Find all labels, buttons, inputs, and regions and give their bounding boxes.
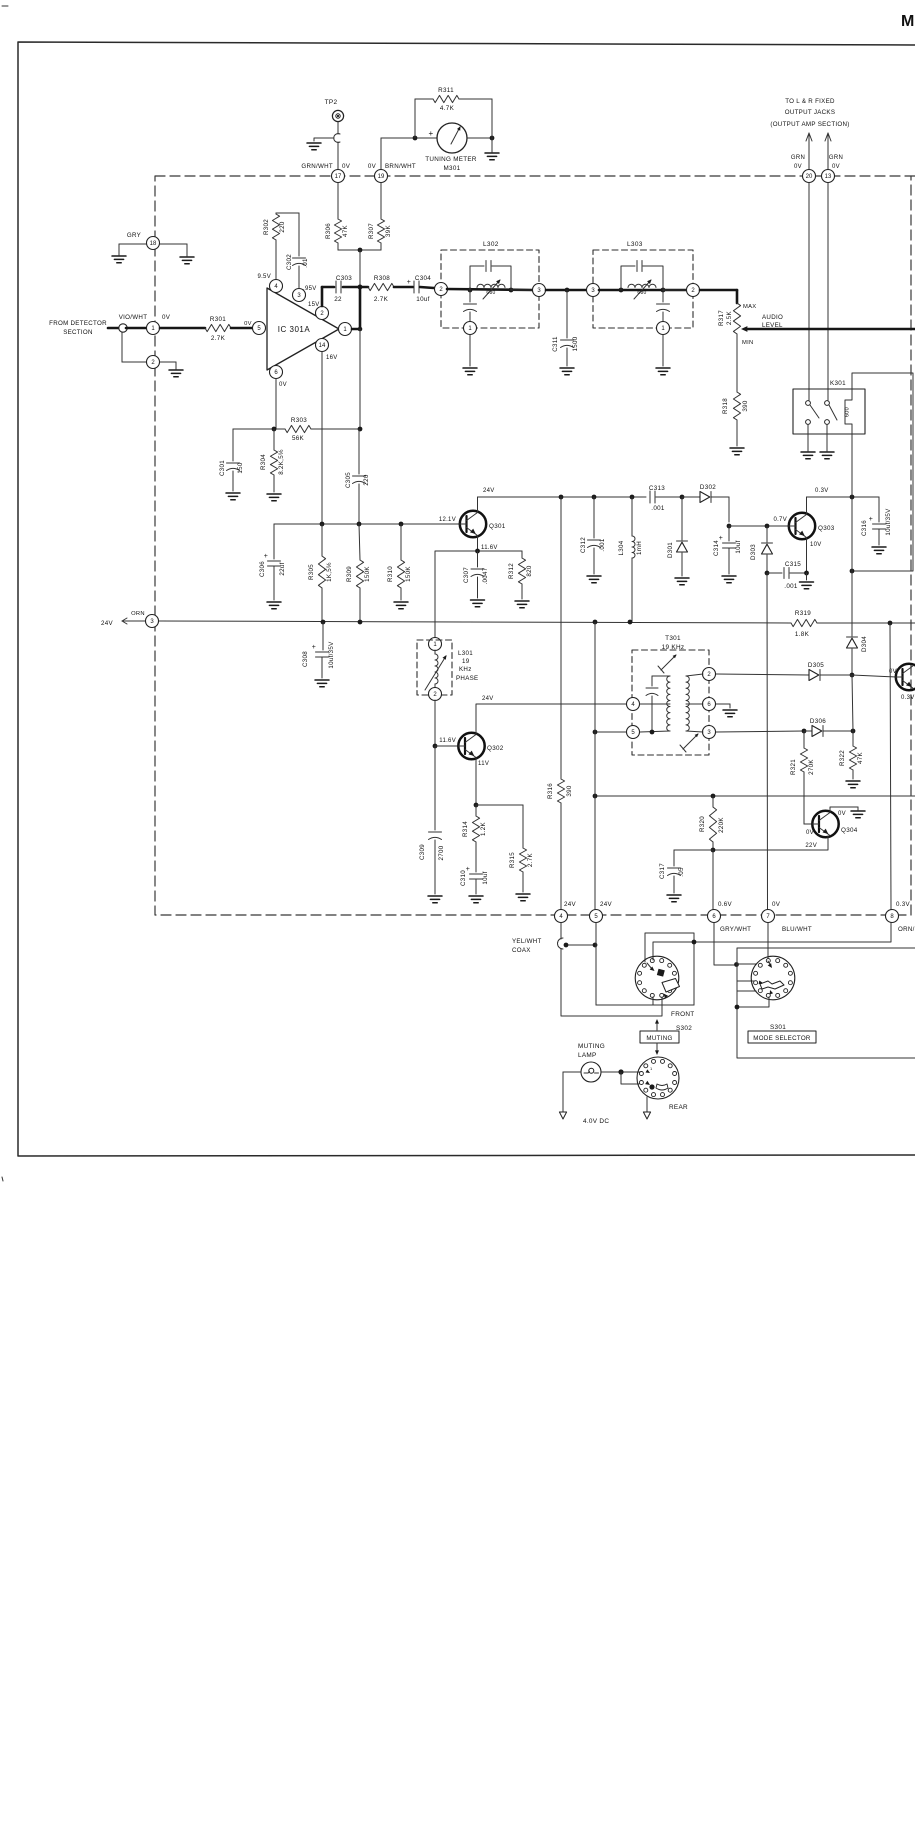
svg-text:220K: 220K [718,817,725,833]
wire 20 to relay [808,183,810,400]
node 17 [301,163,350,183]
node Q302 base [433,744,438,749]
svg-text:680: 680 [486,290,495,296]
wire Q302 base [435,738,458,746]
node L303 left [619,288,624,293]
muting link lower arrow [655,1043,659,1055]
TP2 coax loop [334,134,340,143]
wire node4 down [560,923,562,939]
wire S301 lower feed [737,990,756,992]
svg-text:19 KHz: 19 KHz [662,644,685,651]
resistor R305 [308,524,333,622]
svg-text:MUTING: MUTING [646,1035,672,1042]
ground R318 [730,448,744,455]
svg-text:ORN: ORN [131,611,145,617]
svg-text:820: 820 [526,565,533,576]
ground C312 [587,576,601,583]
svg-text:M: M [901,13,914,30]
capacitor C313 [649,485,665,512]
switch S302 rear wafer [637,1057,679,1099]
node pin1 corner [358,327,363,332]
svg-text:0V: 0V [162,314,171,321]
resistor R320 [699,796,725,850]
wire node to D302 [682,496,700,498]
node C312 top [592,495,597,500]
svg-text:680: 680 [637,290,646,296]
svg-text:S301: S301 [770,1024,786,1031]
mode selector box [748,1031,816,1043]
T301 trimmer top [658,654,677,673]
svg-text:GRN: GRN [829,155,843,161]
svg-text:+: + [312,644,316,651]
svg-text:0.7V: 0.7V [773,517,787,523]
pin T301-4 [627,698,640,711]
T301 resonant capacitor [646,676,658,732]
svg-text:0V: 0V [244,321,252,327]
diode D304 [847,636,869,675]
svg-text:SECTION: SECTION [63,329,93,336]
svg-text:OUTPUT JACKS: OUTPUT JACKS [785,109,836,116]
diode D301 [667,497,688,576]
transformer box T301 [632,635,709,755]
svg-text:D303: D303 [750,544,757,560]
svg-text:R320: R320 [699,816,706,832]
node C308 rail [321,620,326,625]
wire C317 tap [674,849,713,851]
svg-text:2.7K: 2.7K [211,335,226,342]
svg-text:0V: 0V [368,163,377,170]
wire node8 column [890,623,891,909]
inductor L302 coil [477,279,505,299]
node coax [564,943,569,948]
resistor R316 [547,497,573,909]
svg-text:D301: D301 [667,542,674,558]
svg-text:19: 19 [462,658,470,665]
wire lamp right [601,1071,640,1073]
svg-text:.01: .01 [302,258,309,268]
svg-text:C315: C315 [785,561,801,568]
svg-text:R303: R303 [291,417,307,424]
node 4 [555,901,577,923]
pin 14 [316,339,338,362]
T301 trimmer bottom [680,733,699,752]
label 12.1V [439,517,456,523]
pin L302-3 [533,284,546,297]
resistor R315 [509,805,534,892]
transistor Q304 [812,811,858,837]
capacitor C303 [334,275,352,303]
wire emitter row [436,550,522,552]
wire Q302 emitter [476,758,489,805]
svg-text:R318: R318 [722,398,729,414]
node 13 [822,170,835,183]
24V ORN rail [159,621,791,623]
svg-text:0V: 0V [772,901,781,908]
node R320 bottom [711,848,716,853]
node 5 [590,901,613,923]
svg-text:D304: D304 [861,636,868,652]
svg-text:9.5V: 9.5V [257,274,271,280]
label ORN [898,926,915,933]
ground Q303 emitter [800,573,814,589]
svg-text:.001: .001 [784,583,798,590]
svg-text:R312: R312 [508,563,515,579]
node 0.3V drop [850,569,855,574]
wire coax to node5 column [566,944,595,946]
svg-text:2.7K: 2.7K [527,852,534,867]
wire R306 R307 join [338,249,381,251]
svg-text:COAX: COAX [512,947,531,954]
node C314 top [727,524,732,529]
svg-text:R316: R316 [547,783,554,799]
svg-text:+: + [869,516,873,523]
pin L301-1 [429,638,442,651]
svg-text:10uf: 10uf [482,871,489,884]
wire meter left up [414,99,416,138]
svg-text:R308: R308 [374,275,390,282]
L303 bottom capacitor [657,290,670,321]
wire Q301 collector [478,488,495,512]
svg-text:C310: C310 [460,870,467,886]
node D303 bottom [765,571,770,576]
svg-text:150K: 150K [364,566,371,582]
label REAR [669,1104,688,1111]
potentiometer R317 [718,303,756,346]
svg-text:.95V: .95V [303,286,317,292]
ground C307 [471,600,485,607]
node 3 [101,611,159,628]
svg-text:R306: R306 [325,223,332,239]
ground L303 [656,335,670,375]
T301 primary [640,676,670,732]
svg-text:TP2: TP2 [325,99,338,106]
svg-text:MIN: MIN [742,340,754,346]
svg-text:+: + [429,129,434,138]
ground C314 [722,576,736,583]
resistor R312 [508,551,533,599]
front wafer rotor [647,963,680,998]
ground node 2 [160,362,183,377]
svg-text:1mH: 1mH [636,541,643,555]
wire D303 to node7 [766,573,769,909]
pin L302-2 [435,283,448,296]
wire node5 down [596,923,694,1005]
svg-text:10uf: 10uf [735,540,742,553]
svg-text:56K: 56K [292,435,305,442]
wire pin4 up [275,240,277,279]
wire node4 branch [561,949,662,1016]
node Q302 emitter [474,803,479,808]
svg-text:11V: 11V [478,761,489,767]
wire node to Q305 [852,675,896,677]
wire joint down [122,332,146,362]
svg-text:10uf: 10uf [416,296,429,303]
svg-text:AUDIO: AUDIO [762,314,783,321]
resistor R301 [205,316,231,342]
pin 6 [270,366,287,389]
svg-text:C317: C317 [659,863,666,879]
wire D305 row [716,674,809,675]
coax shield loop [558,938,564,949]
node S301 gry join [734,962,739,967]
svg-text:L303: L303 [627,241,643,248]
svg-text:13: 13 [825,174,832,180]
ground meter [485,138,499,160]
node 7 [762,901,781,923]
wire pot down [736,334,738,392]
ground left of 18 [112,244,146,263]
S301 rotor [759,961,784,995]
svg-text:17: 17 [335,174,342,180]
svg-text:1500: 1500 [572,336,579,351]
0.3V rail [807,496,880,498]
node R309 rail [358,620,363,625]
wire lamp branch [621,1072,639,1084]
svg-text:R310: R310 [387,566,394,582]
svg-text:R302: R302 [263,219,270,235]
muting link upper arrow [655,1019,659,1030]
border frame [18,42,915,1156]
svg-text:C308: C308 [302,651,309,667]
node ORN crossing [692,940,697,945]
transistor Q305 partial [889,664,915,701]
svg-text:Q304: Q304 [841,827,858,834]
pin 2 [316,307,329,320]
svg-text:C307: C307 [463,567,470,583]
svg-text:R315: R315 [509,852,516,868]
svg-text:0.6V: 0.6V [718,901,733,908]
node R310 top [399,522,404,527]
relay contact b [825,401,837,425]
node 1 [147,322,160,335]
svg-text:0.3V: 0.3V [901,695,915,701]
capacitor C309 [419,746,445,894]
transistor Q303 [789,513,835,539]
wire C301 drop [232,429,234,461]
svg-text:600: 600 [845,407,851,417]
relay coil [845,391,853,434]
svg-text:FROM DETECTOR: FROM DETECTOR [49,320,107,327]
svg-text:22: 22 [334,296,342,303]
label GRN 0V left [791,155,805,170]
ground C310 [469,896,483,903]
node R303 right [358,427,363,432]
wire joint to node1 [126,327,146,330]
node lamp [618,1069,623,1074]
svg-text:C301: C301 [219,460,226,476]
wire pin5 feed [595,731,626,733]
svg-text:24V: 24V [483,488,495,494]
24V rail [478,496,647,498]
svg-text:L304: L304 [618,540,625,555]
node T301 cap [650,730,655,735]
svg-text:15V: 15V [308,302,320,308]
svg-text:(OUTPUT AMP SECTION): (OUTPUT AMP SECTION) [770,121,849,128]
svg-text:BLU/WHT: BLU/WHT [782,926,812,933]
muting box [640,1031,679,1043]
svg-text:D305: D305 [808,662,824,669]
svg-text:.001: .001 [651,505,665,512]
svg-text:150K: 150K [405,566,412,582]
node R321 top [802,729,807,734]
svg-text:TUNING METER: TUNING METER [425,156,477,163]
svg-text:C316: C316 [861,520,868,536]
svg-text:24V: 24V [564,901,576,908]
svg-text:PHASE: PHASE [456,675,478,682]
node D301 top [680,495,685,500]
connector joint [119,324,127,332]
svg-text:C306: C306 [259,561,266,577]
resistor R307 [368,219,392,250]
wire base row [274,523,460,525]
node emitter C307 [475,549,480,554]
svg-text:24V: 24V [101,620,113,627]
svg-text:1.2K: 1.2K [480,821,487,836]
svg-text:2700: 2700 [438,845,445,860]
wire base row Q303 [729,517,789,526]
svg-text:L302: L302 [483,241,499,248]
node 2 [147,356,160,369]
label 0V input [162,314,171,321]
transistor Q301 [460,511,506,537]
wire R308 to C304 [394,286,413,289]
svg-text:R317: R317 [718,310,725,326]
svg-text:220: 220 [363,474,370,485]
capacitor C312 [580,497,606,574]
wire to D304 [851,497,853,636]
wire C303 to node [343,286,358,289]
svg-text:20: 20 [806,174,813,180]
resistor R308 [368,275,394,303]
ground Q304 collector [851,807,865,818]
wire loop to terminal 17 [337,142,339,169]
pin 1 [339,323,352,336]
svg-text:R305: R305 [308,564,315,580]
node 8 [886,901,911,923]
svg-text:12.1V: 12.1V [439,517,456,523]
ground C309 [428,896,442,903]
node C305 bottom [357,522,362,527]
svg-text:REAR: REAR [669,1104,688,1111]
L302 top capacitor branch [470,261,511,291]
wire D306 row [716,731,804,732]
svg-text:39K: 39K [385,224,392,236]
capacitor C305 [345,429,370,524]
test point TP2 [325,99,344,122]
capacitor C316 [861,497,892,545]
wire node7 to S301 [767,923,769,958]
wire node6 up [712,850,714,909]
label GRY [127,232,141,239]
pin 4 [257,274,282,293]
wire L303 main a [599,289,686,292]
wire D304 to R322 [852,675,853,731]
wire node to R308 [360,286,368,289]
svg-text:KHz: KHz [459,666,472,673]
ground C311 [560,368,574,375]
ground C306 [267,602,281,609]
node L302 left [468,288,473,293]
node L304 top [630,495,635,500]
capacitor C317 [659,850,685,893]
wire L302 main a [447,289,533,290]
capacitor C307 [463,551,489,598]
ground relay b [820,425,834,459]
label GRY/WHT [720,926,751,933]
svg-text:11.6V: 11.6V [439,738,456,744]
node L304 bottom [628,620,633,625]
svg-text:R301: R301 [210,316,226,323]
ground relay a [801,425,815,459]
wire ORN run [653,923,891,960]
svg-text:16V: 16V [326,355,338,361]
svg-text:R307: R307 [368,223,375,239]
label YEL/WHT COAX [512,938,542,954]
pin L303-2 [687,284,700,297]
svg-text:R304: R304 [260,454,267,470]
svg-text:0V: 0V [794,164,802,170]
wire pin1 node down [359,329,361,429]
svg-text:0.3V: 0.3V [815,488,829,494]
label 4.0V DC [583,1118,609,1125]
wire Q301 emitter [478,536,498,551]
label from detector [49,320,107,336]
wire node3 arrow [122,618,145,624]
svg-text:C305: C305 [345,472,352,488]
label BLU/WHT [782,926,812,933]
rear wafer rotor [645,1066,668,1090]
resistor R303 [285,417,311,442]
node coax b [593,943,598,948]
ground R304 [267,494,281,501]
svg-text:FRONT: FRONT [671,1011,695,1018]
page corner mark [2,6,8,1181]
inductor L301 [425,650,447,690]
svg-text:1.8K: 1.8K [795,631,810,638]
pin L301-2 [429,688,442,701]
svg-text:.001: .001 [599,538,606,552]
diode D303 [750,526,773,573]
resistor R306 [325,219,349,250]
tuning meter M301 [425,123,477,172]
wire join down [359,250,361,287]
svg-text:390: 390 [566,785,573,796]
svg-text:150: 150 [237,462,244,473]
svg-text:0V: 0V [342,163,351,170]
transistor Q302 [458,733,504,759]
wire 13 to relay [827,183,829,400]
capacitor C311 [552,290,579,366]
wire emitter to R315 [476,804,523,806]
wire L302 main b [511,289,533,291]
dashed section boundary [155,176,915,915]
svg-text:D306: D306 [810,718,826,725]
wire D302 out [711,497,729,522]
svg-text:YEL/WHT: YEL/WHT [512,938,542,945]
wire input [108,327,119,330]
pin T301-6 [703,698,716,711]
node Q303 emitter gnd [804,571,809,576]
wire R302 top to C302 [276,213,299,256]
svg-text:11.6V: 11.6V [481,545,498,551]
svg-text:GRN: GRN [791,155,805,161]
wire 19 to meter [381,138,437,169]
ground L302 [463,335,477,375]
svg-text:47K: 47K [342,224,349,236]
ground R315 [516,894,530,901]
pin T301-5 [627,726,640,739]
svg-text:GRY: GRY [127,232,141,239]
